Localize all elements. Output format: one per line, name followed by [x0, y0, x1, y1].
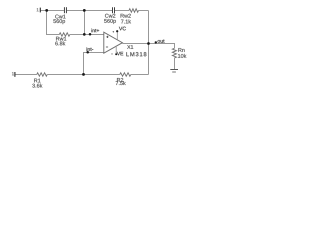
op-amp X1 model label LM318 [126, 52, 146, 56]
wire from Rw2 to feedback corner [139, 10, 149, 12]
op-amp VC supply stub [116, 31, 118, 39]
net int- attach dot [86, 51, 89, 54]
resistor Rw2 value label [121, 19, 131, 23]
resistor R2 zigzag [120, 73, 131, 76]
resistor Rw1 ref label [56, 37, 66, 41]
op-amp noninverting plus mark [106, 36, 108, 38]
net out label [158, 39, 165, 42]
port 1 bottom label [12, 72, 14, 75]
port 1 top label [37, 8, 39, 11]
resistor Rn ref label [178, 48, 184, 52]
wire left rail node A down to Rw1 row [47, 11, 60, 35]
junction dot node B top [83, 9, 86, 12]
op-amp -VE supply stub [115, 46, 117, 54]
wire node B vertical [84, 11, 86, 35]
wire top from Cw2 to Rw2 [115, 10, 129, 12]
junction dot node B at int+ wire [83, 33, 86, 36]
resistor Rw1 zigzag [59, 33, 70, 36]
wire from Rw1 to op-amp noninverting input [70, 34, 104, 36]
capacitor Cw1 value label [53, 19, 65, 24]
port 1 bottom bar [14, 72, 16, 77]
capacitor Cw2 value label [104, 19, 116, 24]
ground symbol [170, 69, 178, 71]
wire top from Cw1 to Cw2 [67, 10, 112, 12]
wire feedback vertical to out node and down to R2 [148, 11, 150, 75]
resistor R2 ref label [117, 78, 123, 82]
resistor R1 value label [32, 84, 42, 88]
wire R2 right end to feedback vertical [131, 74, 149, 76]
capacitor Cw1 ref label [55, 15, 65, 19]
wire from Rn to ground [174, 58, 176, 70]
wire out from op-amp tip to Rn [122, 44, 174, 49]
resistor Rn vertical zigzag [172, 48, 176, 58]
wire int- from bottom junction up to op-amp inverting input [84, 53, 104, 75]
resistor R1 ref label [34, 79, 40, 83]
net VC label [119, 27, 126, 31]
net int- label [87, 47, 94, 51]
junction dot node A [45, 9, 48, 12]
junction dot R1 R2 bottom [82, 73, 85, 76]
port 1 top bar [39, 8, 41, 13]
op-amp inverting minus mark [106, 46, 108, 48]
net -VE label VE [117, 52, 123, 55]
wire top from port 1 to Cw1 [41, 10, 64, 12]
op-amp X1 ref label [127, 45, 133, 49]
capacitor Cw1 plates [64, 7, 66, 13]
net int+ attach dot [89, 33, 92, 36]
capacitor Cw2 plates [113, 7, 115, 13]
capacitor Cw2 ref label [105, 14, 115, 18]
net -VE label minus [111, 53, 112, 55]
op-amp VC supply attach dot [116, 30, 118, 32]
resistor Rn value label [178, 54, 186, 58]
net int+ label [92, 29, 100, 33]
VC small plus mark [113, 31, 115, 33]
wire bottom from port 1 to R1 [15, 74, 37, 76]
op-amp X1 triangle body [104, 32, 123, 53]
op-amp -VE supply attach dot [115, 53, 117, 55]
net out attach dot [155, 41, 157, 43]
wire bottom from R1 to R2 [47, 74, 120, 76]
junction dot out node [147, 42, 150, 45]
resistor Rw1 value label [55, 41, 65, 45]
resistor R1 zigzag [37, 73, 47, 76]
resistor Rw2 ref label [121, 14, 131, 18]
resistor Rw2 zigzag [129, 9, 138, 12]
resistor R2 value label [116, 81, 126, 85]
